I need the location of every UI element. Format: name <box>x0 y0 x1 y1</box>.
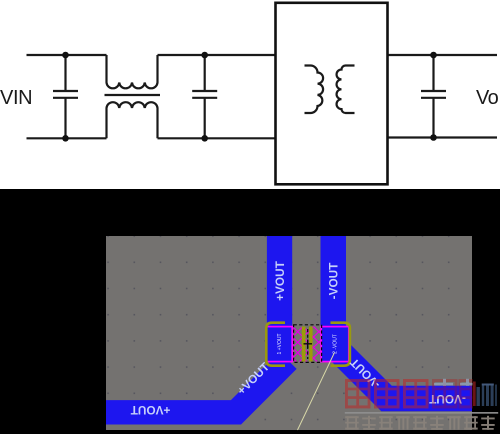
watermark light stroke caps over blue trace <box>434 379 473 386</box>
ratsnest line <box>298 353 335 431</box>
trace -VOUT vertical <box>321 236 347 330</box>
wire bottom mid rail to box <box>158 137 276 139</box>
pad 2 <box>321 327 349 362</box>
wire top output rail <box>388 54 498 56</box>
silkscreen body bar right <box>309 327 313 362</box>
svg-text:Vo: Vo <box>476 87 499 109</box>
trace -VOUT bottom-right run <box>340 352 472 399</box>
trace +VOUT vertical <box>267 236 292 330</box>
pad 1 <box>267 327 293 362</box>
svg-text:1 +VOUT: 1 +VOUT <box>277 334 283 355</box>
inductor L1 top winding of common-mode choke <box>107 55 158 88</box>
capacitor C1 <box>53 55 78 138</box>
junction node top C2 <box>201 52 208 59</box>
silkscreen staple left <box>266 323 285 366</box>
transformer T1 secondary winding <box>337 66 355 114</box>
choke core line <box>105 94 161 96</box>
junction node bottom C1 <box>62 135 69 142</box>
watermark underline <box>345 412 498 414</box>
svg-text:VIN: VIN <box>0 87 32 109</box>
transformer T1 primary winding <box>305 66 324 114</box>
grid dots <box>106 236 472 430</box>
svg-text:+VOUT: +VOUT <box>273 260 287 300</box>
svg-text:-VOUT: -VOUT <box>327 262 341 299</box>
trace +VOUT bottom-left run <box>106 360 288 412</box>
capacitor C3 <box>421 55 446 138</box>
junction node bottom C2 <box>201 135 208 142</box>
junction node top C3 <box>430 52 437 59</box>
wire top mid rail to box <box>158 54 276 56</box>
capacitor C2 <box>192 55 217 138</box>
watermark bars top caps <box>482 384 494 386</box>
junction node bottom C3 <box>430 134 437 141</box>
white schematic background <box>0 0 500 189</box>
courtyard dashed outline <box>294 325 322 363</box>
wire bottom-left rail <box>27 137 107 139</box>
black lower band <box>0 189 500 434</box>
inductor L2 bottom winding of common-mode choke <box>107 102 158 138</box>
silkscreen body bar left <box>302 327 306 362</box>
watermark tagline characters <box>345 416 495 430</box>
courtyard center cross <box>304 340 313 348</box>
svg-text:2 -VOUT: 2 -VOUT <box>333 334 339 354</box>
junction node top C1 <box>62 52 69 59</box>
wire top-left VIN rail <box>27 54 107 56</box>
watermark red edge bar <box>473 382 476 407</box>
isolation module box U1 <box>276 3 388 185</box>
courtyard center line <box>307 329 309 359</box>
PCB layout background <box>106 236 472 430</box>
silkscreen staple right <box>331 323 350 366</box>
svg-text:+VOUT: +VOUT <box>130 403 170 417</box>
wire bottom output rail <box>388 136 498 138</box>
hatched body region between pads <box>293 327 322 362</box>
